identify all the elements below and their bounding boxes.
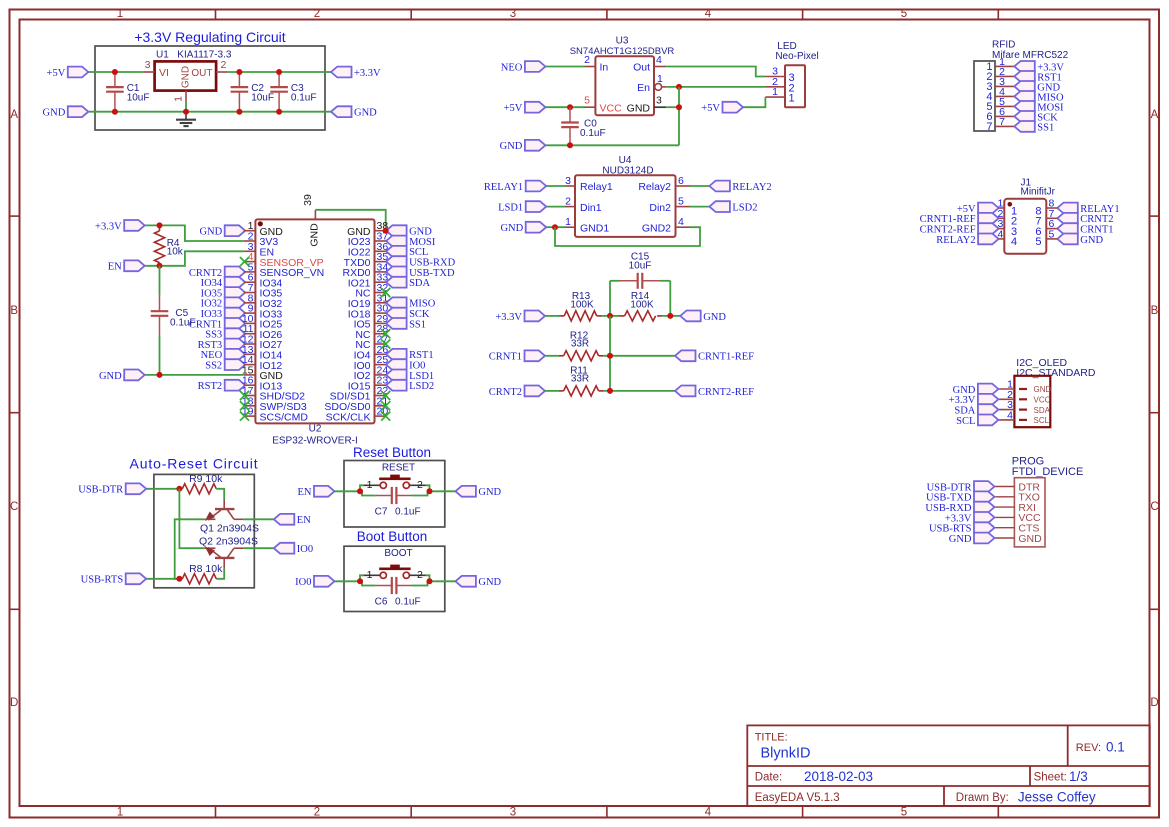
svg-text:0.1uF: 0.1uF [395, 597, 421, 608]
svg-text:Neo-Pixel: Neo-Pixel [775, 51, 818, 62]
svg-text:Q2 2n3904S: Q2 2n3904S [199, 536, 258, 548]
svg-text:2: 2 [584, 54, 590, 66]
svg-text:OUT: OUT [191, 68, 212, 79]
svg-text:5: 5 [1049, 228, 1055, 240]
svg-text:0.1uF: 0.1uF [170, 317, 196, 328]
svg-text:Auto-Reset Circuit: Auto-Reset Circuit [130, 456, 259, 472]
svg-text:2: 2 [221, 59, 227, 71]
svg-text:2: 2 [314, 8, 320, 20]
svg-text:U4: U4 [619, 155, 632, 166]
svg-text:VCC: VCC [1034, 396, 1051, 405]
svg-text:USB-RTS: USB-RTS [81, 575, 124, 586]
svg-text:+5V: +5V [701, 103, 720, 114]
svg-text:Q1 2n3904S: Q1 2n3904S [200, 523, 259, 535]
svg-text:+3.3V Regulating Circuit: +3.3V Regulating Circuit [134, 29, 285, 45]
svg-text:1: 1 [565, 216, 571, 228]
svg-text:NEO: NEO [501, 62, 523, 73]
svg-text:SDA: SDA [409, 278, 430, 289]
svg-text:100K: 100K [570, 300, 594, 311]
svg-text:2: 2 [417, 479, 423, 491]
svg-text:In: In [600, 62, 609, 74]
svg-text:2: 2 [417, 569, 423, 581]
svg-text:Din2: Din2 [649, 202, 671, 214]
svg-text:Out: Out [633, 62, 650, 74]
svg-text:SCS/CMD: SCS/CMD [260, 411, 309, 423]
svg-text:RST2: RST2 [198, 381, 223, 392]
svg-text:GND: GND [500, 141, 523, 152]
svg-text:BlynkID: BlynkID [761, 746, 811, 762]
svg-text:GND: GND [478, 577, 501, 588]
svg-text:0.1: 0.1 [1106, 740, 1125, 755]
svg-text:100K: 100K [630, 300, 654, 311]
svg-text:GND: GND [309, 223, 321, 247]
svg-text:GND1: GND1 [580, 222, 609, 234]
svg-text:RFID: RFID [992, 40, 1015, 51]
svg-text:R8 10k: R8 10k [189, 563, 223, 575]
svg-text:5: 5 [678, 196, 684, 208]
svg-text:Relay1: Relay1 [580, 181, 613, 193]
svg-text:2: 2 [314, 807, 320, 819]
svg-text:Din1: Din1 [580, 202, 602, 214]
svg-text:VCC: VCC [600, 102, 623, 114]
svg-text:GND: GND [354, 108, 377, 119]
svg-text:GND: GND [99, 371, 122, 382]
svg-text:RESET: RESET [382, 463, 415, 474]
svg-text:4: 4 [1011, 236, 1017, 248]
svg-text:CRNT2-REF: CRNT2-REF [698, 387, 754, 398]
svg-text:+3.3V: +3.3V [495, 312, 522, 323]
svg-text:RELAY1: RELAY1 [484, 182, 523, 193]
svg-text:3: 3 [565, 175, 571, 187]
svg-text:4: 4 [998, 228, 1004, 240]
svg-text:+3.3V: +3.3V [354, 68, 381, 79]
svg-text:2018-02-03: 2018-02-03 [804, 769, 873, 784]
svg-text:GND: GND [949, 534, 972, 545]
svg-text:2: 2 [565, 196, 571, 208]
svg-text:C6: C6 [375, 597, 388, 608]
svg-text:C: C [1150, 501, 1158, 513]
svg-text:RELAY2: RELAY2 [732, 182, 771, 193]
svg-text:SCL: SCL [1034, 416, 1050, 425]
svg-text:5: 5 [1035, 236, 1041, 248]
svg-text:FTDI_DEVICE: FTDI_DEVICE [1012, 466, 1084, 478]
svg-text:Relay2: Relay2 [638, 181, 671, 193]
svg-text:GND: GND [703, 312, 726, 323]
svg-text:TITLE:: TITLE: [755, 732, 788, 744]
svg-text:A: A [1151, 109, 1159, 121]
svg-text:R9 10k: R9 10k [189, 473, 223, 485]
svg-text:IO0: IO0 [295, 577, 311, 588]
svg-text:3: 3 [656, 95, 662, 107]
svg-text:5: 5 [901, 807, 907, 819]
svg-text:REV:: REV: [1076, 742, 1101, 754]
svg-text:D: D [10, 697, 18, 709]
svg-text:GND: GND [1080, 235, 1103, 246]
svg-text:ESP32-WROVER-I: ESP32-WROVER-I [272, 436, 358, 447]
svg-text:0.1uF: 0.1uF [395, 507, 421, 518]
svg-text:EasyEDA V5.1.3: EasyEDA V5.1.3 [755, 792, 840, 804]
svg-text:10uF: 10uF [251, 92, 274, 103]
svg-text:SS2: SS2 [205, 361, 222, 372]
svg-text:+3.3V: +3.3V [95, 221, 122, 232]
svg-text:SS1: SS1 [409, 319, 426, 330]
svg-text:3: 3 [145, 59, 151, 71]
svg-text:RELAY2: RELAY2 [936, 235, 975, 246]
svg-text:GND: GND [1018, 533, 1042, 545]
svg-text:Jesse Coffey: Jesse Coffey [1018, 789, 1096, 804]
svg-text:LSD1: LSD1 [498, 203, 523, 214]
svg-text:A: A [10, 109, 18, 121]
svg-text:GND: GND [500, 223, 523, 234]
svg-text:1: 1 [657, 73, 663, 85]
svg-text:D: D [1150, 697, 1158, 709]
svg-text:GND: GND [199, 227, 222, 238]
svg-text:1: 1 [789, 93, 795, 105]
svg-text:3: 3 [510, 8, 516, 20]
svg-text:USB-DTR: USB-DTR [78, 485, 123, 496]
svg-text:1: 1 [772, 86, 778, 98]
svg-text:GND: GND [627, 102, 651, 114]
svg-text:GND: GND [181, 66, 192, 88]
svg-text:39: 39 [302, 194, 314, 206]
svg-text:C: C [10, 501, 18, 513]
svg-text:Sheet:: Sheet: [1034, 772, 1067, 784]
svg-text:U1: U1 [156, 50, 169, 61]
svg-text:IO0: IO0 [297, 544, 313, 555]
svg-text:En: En [637, 82, 650, 94]
svg-text:3: 3 [510, 807, 516, 819]
svg-text:1/3: 1/3 [1069, 769, 1088, 784]
svg-text:4: 4 [656, 54, 662, 66]
svg-text:7: 7 [999, 116, 1005, 128]
svg-text:I2C_STANDARD: I2C_STANDARD [1016, 367, 1096, 379]
svg-text:CRNT1-REF: CRNT1-REF [698, 352, 754, 363]
svg-text:B: B [1151, 305, 1159, 317]
svg-text:5: 5 [584, 95, 590, 107]
svg-text:1: 1 [117, 8, 123, 20]
svg-text:Reset Button: Reset Button [353, 445, 431, 460]
svg-text:4: 4 [678, 216, 684, 228]
svg-text:6: 6 [678, 175, 684, 187]
svg-text:4: 4 [705, 807, 712, 819]
svg-text:GND: GND [43, 108, 66, 119]
svg-text:Date:: Date: [755, 772, 783, 784]
svg-text:0.1uF: 0.1uF [580, 128, 606, 139]
svg-text:EN: EN [297, 515, 311, 526]
svg-text:1: 1 [367, 479, 373, 491]
svg-text:5: 5 [901, 8, 907, 20]
svg-text:10uF: 10uF [127, 92, 150, 103]
svg-text:0.1uF: 0.1uF [291, 92, 317, 103]
svg-text:B: B [10, 305, 18, 317]
svg-text:LSD2: LSD2 [732, 203, 757, 214]
svg-text:4: 4 [705, 8, 712, 20]
svg-text:+5V: +5V [504, 103, 523, 114]
svg-text:SS1: SS1 [1037, 122, 1054, 133]
svg-text:EN: EN [298, 487, 312, 498]
svg-text:CRNT1: CRNT1 [489, 352, 522, 363]
svg-text:CRNT2: CRNT2 [489, 387, 522, 398]
svg-text:BOOT: BOOT [384, 548, 412, 559]
svg-text:Boot Button: Boot Button [357, 529, 428, 544]
svg-text:SDA: SDA [1034, 406, 1051, 415]
svg-text:VI: VI [159, 67, 169, 79]
svg-text:1: 1 [117, 807, 123, 819]
svg-text:1: 1 [173, 96, 185, 102]
svg-text:GND: GND [478, 487, 501, 498]
svg-text:SCK/CLK: SCK/CLK [326, 411, 371, 423]
svg-text:U2: U2 [309, 424, 322, 435]
svg-text:Drawn By:: Drawn By: [956, 792, 1009, 804]
svg-text:GND: GND [1034, 385, 1052, 394]
svg-text:EN: EN [108, 262, 122, 273]
svg-text:10uF: 10uF [629, 261, 652, 272]
svg-text:4: 4 [1007, 409, 1013, 421]
svg-text:GND2: GND2 [642, 222, 671, 234]
svg-text:SCL: SCL [956, 416, 975, 427]
svg-text:LSD2: LSD2 [409, 381, 434, 392]
svg-text:1: 1 [367, 569, 373, 581]
svg-text:+5V: +5V [47, 68, 66, 79]
svg-text:10k: 10k [167, 246, 184, 257]
svg-text:MinifitJr: MinifitJr [1021, 187, 1056, 198]
svg-text:7: 7 [986, 121, 992, 133]
svg-text:33R: 33R [571, 374, 589, 385]
svg-text:33R: 33R [571, 339, 589, 350]
svg-text:C7: C7 [375, 507, 388, 518]
